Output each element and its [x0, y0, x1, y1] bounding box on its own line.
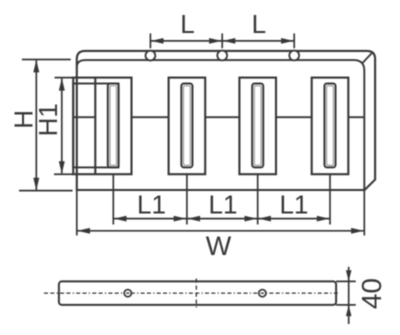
center dashed vertical — [195, 279, 197, 308]
H extension top — [22, 59, 71, 61]
svg-text:L: L — [252, 9, 266, 39]
slot 2 — [181, 84, 192, 168]
W dimension line — [77, 230, 365, 232]
cell 3 outer rectangle — [239, 78, 276, 175]
svg-text:L1: L1 — [209, 190, 238, 220]
arrowheads L span2 — [223, 38, 236, 44]
L1 extension line 1 — [112, 174, 114, 224]
H dimension line — [35, 60, 37, 190]
40 extension bottom — [336, 304, 356, 306]
hole circle 3 — [289, 51, 299, 61]
body inner lip line — [77, 60, 365, 190]
svg-text:L1: L1 — [279, 190, 308, 220]
corner chamfer line top-right — [362, 53, 372, 63]
side view — [44, 267, 356, 324]
W extension right — [363, 191, 365, 236]
dimension W group — [77, 191, 365, 236]
hole circle 1 — [146, 51, 156, 61]
extension tick over circle 3 — [293, 33, 295, 48]
cell 1 half line — [73, 116, 95, 118]
arrowheads L span1 — [151, 38, 164, 44]
cell 1 outer rectangle — [73, 78, 131, 175]
cell 4 outer rectangle — [312, 78, 349, 175]
centerline dash-dot — [44, 292, 338, 294]
side hole 1 — [124, 290, 131, 297]
40 extension top — [336, 280, 356, 282]
extension tick over circle 1 — [149, 33, 151, 48]
dimension H1 — [54, 78, 73, 175]
H1 dimension line — [61, 78, 63, 173]
W extension left — [76, 191, 78, 236]
dimension L group — [150, 33, 294, 48]
L1 arrowheads — [114, 216, 127, 222]
dimension L1 group — [113, 174, 330, 224]
slot 3 — [252, 84, 263, 168]
side hole 2 — [259, 290, 266, 297]
dimension H — [19, 60, 73, 191]
H1 extension top — [55, 77, 74, 79]
wire connector cell1-cell2 — [132, 116, 169, 118]
slot 1 — [108, 84, 119, 168]
cell 1 divider — [94, 78, 96, 175]
H1 extension bottom — [54, 173, 73, 175]
cell 1 inner plate — [73, 84, 118, 168]
40 arrowheads — [346, 270, 352, 281]
dimension line L span 1 — [150, 40, 222, 42]
svg-text:H1: H1 — [33, 103, 63, 136]
L1 dimension line — [113, 218, 330, 220]
L1 extension line 4 — [329, 174, 331, 224]
svg-text:W: W — [206, 231, 232, 261]
hole circle 2 — [217, 51, 227, 61]
slot ghost inner lines — [110, 86, 333, 166]
H extension bottom — [19, 190, 73, 192]
side body rectangle — [59, 281, 336, 305]
40 dimension line — [348, 267, 350, 324]
H1 arrowheads — [59, 78, 65, 91]
svg-text:L: L — [180, 9, 194, 39]
dimension line L span 2 — [222, 40, 294, 42]
extension tick over circle 2 — [221, 33, 223, 48]
slot 4 — [324, 84, 335, 168]
wire connector cell4-edge — [348, 116, 364, 118]
svg-text:L1: L1 — [137, 190, 166, 220]
wire connector cell2-cell3 — [205, 116, 239, 118]
cell 2 outer rectangle — [169, 78, 206, 175]
L1 extension line 2 — [186, 174, 188, 224]
wire connector cell3-cell4 — [276, 116, 312, 118]
svg-text:40: 40 — [356, 278, 387, 309]
body outline (top view) — [77, 51, 375, 190]
L1 extension line 3 — [257, 174, 259, 224]
H arrowheads — [33, 60, 39, 73]
W arrowheads — [78, 228, 91, 234]
